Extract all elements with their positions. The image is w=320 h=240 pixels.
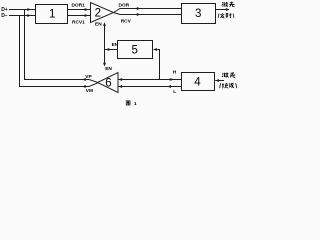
wire DOR1 <box>68 8 91 11</box>
label (接收) <box>220 83 237 88</box>
svg-text:H: H <box>173 69 177 75</box>
caption 图 1 <box>126 101 130 105</box>
node D+ <box>1 7 8 13</box>
wire D+ into block 1 <box>9 8 36 11</box>
label EN (driver 6 enable) <box>105 66 112 72</box>
wire block 5 enable output <box>105 48 118 51</box>
block 5 <box>118 41 153 59</box>
label VM <box>86 88 93 94</box>
svg-text:EN: EN <box>105 66 112 72</box>
svg-text:EN: EN <box>95 22 102 28</box>
label EN (buffer 2 enable) <box>95 22 102 28</box>
label RCV1 <box>72 20 85 26</box>
wire H <box>118 78 182 81</box>
wire DOR to block 3 <box>114 7 182 13</box>
svg-text:DOR: DOR <box>119 2 130 8</box>
svg-text:1: 1 <box>49 9 55 21</box>
EN net vertical <box>103 22 106 66</box>
label laser transmit (激光) <box>222 2 235 7</box>
svg-text:5: 5 <box>132 45 138 57</box>
svg-text:VM: VM <box>86 88 93 94</box>
svg-text:2: 2 <box>95 7 101 19</box>
block 1 <box>36 5 68 24</box>
svg-text:D+: D+ <box>1 7 8 13</box>
label DOR <box>119 2 130 8</box>
label L <box>173 89 176 95</box>
wire RCV to block 3 <box>114 13 182 17</box>
laser transmit arrow <box>216 8 230 11</box>
svg-text:EN: EN <box>112 42 119 48</box>
svg-text:RCV1: RCV1 <box>72 20 85 26</box>
wire D- into block 1 <box>9 14 36 17</box>
label VP <box>85 74 92 80</box>
svg-text:4: 4 <box>194 77 201 89</box>
driver 6 <box>98 73 119 93</box>
wire L <box>118 85 182 88</box>
label RCV <box>121 19 132 25</box>
svg-text:VP: VP <box>85 74 92 80</box>
label laser receive (激光) <box>222 72 235 77</box>
laser receive arrow <box>215 79 224 82</box>
block 3 <box>182 4 216 24</box>
label EN (block 5 output) <box>112 42 119 48</box>
wire VP feedback (driver output to D+) <box>25 10 98 83</box>
svg-text:L: L <box>173 89 176 95</box>
label (发射) <box>218 13 234 18</box>
svg-text:RCV: RCV <box>121 19 132 25</box>
svg-text:6: 6 <box>105 78 111 90</box>
wire block 5 sense input from H line <box>153 48 159 80</box>
label H <box>173 69 177 75</box>
wire RCV1 <box>68 14 91 17</box>
wire VM feedback (driver output to D-) <box>20 16 98 89</box>
label DOR1 <box>72 3 86 9</box>
block 4 <box>182 73 215 91</box>
svg-text:D−: D− <box>1 13 8 19</box>
buffer 2 <box>91 3 114 23</box>
svg-text:3: 3 <box>195 8 201 20</box>
node D- <box>1 13 8 19</box>
svg-text:DOR1: DOR1 <box>72 3 86 9</box>
svg-text:1: 1 <box>134 101 137 107</box>
